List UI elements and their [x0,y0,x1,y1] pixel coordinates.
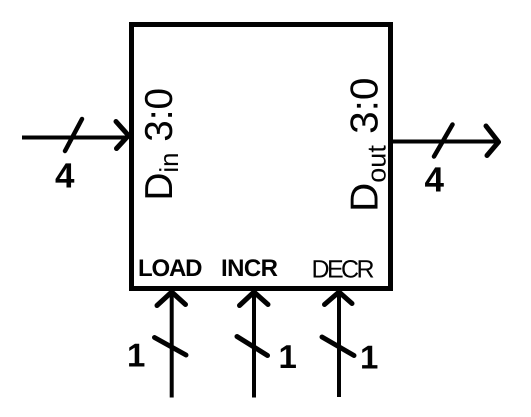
wire INCR [252,293,256,398]
svg-text:INCR: INCR [221,255,278,282]
svg-text:1: 1 [127,337,145,374]
svg-text:4: 4 [425,161,445,200]
bus slash DECR [322,337,354,356]
svg-text:Din 3:0: Din 3:0 [138,88,184,201]
bus slash INCR [237,337,268,356]
wire DECR [337,293,341,397]
wire Dout bus [393,140,497,144]
arrowhead Din [116,122,129,149]
bus slash Din [65,119,82,151]
svg-text:DECR: DECR [312,256,375,284]
bus slash Dout [434,125,453,157]
svg-text:Dout 3:0: Dout 3:0 [344,78,392,213]
svg-text:4: 4 [55,157,75,196]
arrowhead INCR [240,292,269,306]
wire Din bus [22,136,127,140]
svg-text:1: 1 [279,338,297,375]
arrowhead LOAD [157,292,186,306]
wire LOAD [170,293,174,398]
arrowhead Dout [486,126,499,156]
counter block U1 [132,25,391,289]
svg-text:1: 1 [360,339,378,376]
bus slash LOAD [155,338,187,356]
arrowhead DECR [325,292,353,305]
svg-text:LOAD: LOAD [138,255,203,282]
